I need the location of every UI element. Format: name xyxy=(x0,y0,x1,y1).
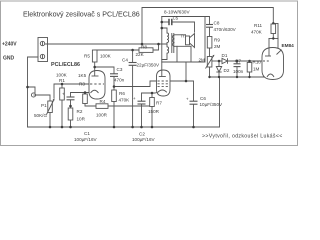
wire R7 bottom xyxy=(151,107,153,128)
pentode ECL86 power section xyxy=(155,70,170,96)
junction eye grid row at D2 xyxy=(218,60,221,63)
svg-text:2M: 2M xyxy=(214,44,221,49)
wire C4 column xyxy=(132,50,134,62)
wire pentode anode riser xyxy=(161,17,163,71)
resistor R9 2M xyxy=(207,37,212,49)
node triode grid (R1 top) xyxy=(61,83,64,86)
wire NFB row to R7 column xyxy=(108,105,152,107)
svg-text:R4: R4 xyxy=(100,99,106,104)
wire C7 column xyxy=(236,61,238,64)
svg-text:22µF/350V: 22µF/350V xyxy=(137,63,161,68)
svg-text:100n: 100n xyxy=(233,69,244,74)
junction eye grid row at R10 xyxy=(248,60,251,63)
wire jack pin to P1 xyxy=(37,95,51,101)
wire pins into EM84 xyxy=(268,39,270,49)
wire R9 to trimmer node xyxy=(209,48,211,57)
wire R1 xyxy=(61,84,63,88)
svg-text:1K5: 1K5 xyxy=(78,73,87,78)
junction anode riser at primary top xyxy=(161,27,164,30)
junction preamp supply node at C4 xyxy=(131,49,134,52)
junction eye ground bus at trimmer xyxy=(208,76,210,78)
wire C6 bottom xyxy=(193,105,195,128)
resistor R3 1K5 xyxy=(83,94,88,104)
potentiometer P1 xyxy=(47,99,55,115)
svg-text:470n: 470n xyxy=(114,78,125,83)
junction ground rail at C6 xyxy=(192,126,195,129)
wire C2 bottom xyxy=(141,104,143,127)
junction ground rail at C2 xyxy=(140,126,143,129)
svg-text:C8: C8 xyxy=(214,21,220,26)
wire anode to C3 xyxy=(95,67,114,74)
wire C1 to R2 xyxy=(70,100,72,108)
capacitor C8 470n/630V xyxy=(206,25,213,28)
wire R3 bottom to NFB row xyxy=(85,103,96,106)
capacitor C4 22uF/350V xyxy=(129,63,137,66)
wire +240V rail xyxy=(47,43,167,45)
outer frame xyxy=(1,1,298,146)
svg-text:GND: GND xyxy=(3,56,15,62)
svg-text:100K: 100K xyxy=(56,73,68,78)
resistor R6 470K xyxy=(112,90,117,102)
wire pin bar xyxy=(269,38,278,40)
wire trimmer bottom xyxy=(209,67,211,77)
svg-text:+240V: +240V xyxy=(2,42,17,48)
svg-text:100K: 100K xyxy=(100,54,112,59)
resistor R11 470K xyxy=(271,24,276,34)
capacitor C1 xyxy=(67,97,75,100)
capacitor C5 xyxy=(169,19,172,25)
resistor R4 100R xyxy=(96,104,108,109)
node pentode cathode xyxy=(151,92,154,95)
wire P1 wiper riser to grid xyxy=(54,84,89,98)
wire box top to C8 xyxy=(162,17,210,25)
wire module pin speaker minus xyxy=(190,46,192,62)
wire jack sleeve xyxy=(28,87,36,93)
svg-text:R6: R6 xyxy=(119,91,125,96)
junction ground rail at R7 xyxy=(151,126,154,129)
resistor R8 22K xyxy=(139,48,153,53)
svg-text:R8: R8 xyxy=(141,45,147,50)
svg-text:R11: R11 xyxy=(254,23,263,28)
junction EM84 supply at R11 xyxy=(272,22,275,25)
resistor R10 1M xyxy=(247,63,252,73)
svg-text:C2: C2 xyxy=(139,132,145,137)
svg-text:100µF/16V: 100µF/16V xyxy=(132,137,156,142)
wire ground rail xyxy=(28,126,220,128)
svg-text:Elektronkový zesilovač s PCL/E: Elektronkový zesilovač s PCL/ECL86 xyxy=(23,11,140,19)
junction GND wire at input jack xyxy=(26,86,29,89)
wire D2 column xyxy=(218,61,220,67)
wire R6 bottom xyxy=(113,102,115,128)
resistor R1 100K xyxy=(60,88,65,100)
speaker xyxy=(186,34,195,48)
capacitor C3 470n xyxy=(110,74,118,77)
svg-text:470n/630V: 470n/630V xyxy=(214,27,237,32)
wire R11 bottom to pin bar xyxy=(272,34,274,39)
svg-text:10µF/350V: 10µF/350V xyxy=(200,102,224,107)
junction C1/R2 xyxy=(69,105,72,108)
wire triode cathode node xyxy=(85,93,92,95)
resistor R7 150R xyxy=(150,98,155,107)
svg-text:470K: 470K xyxy=(119,98,131,103)
wire C5 right to speaker xyxy=(173,22,195,32)
svg-text:C3: C3 xyxy=(117,67,123,72)
junction eye grid row at C7 xyxy=(236,60,239,63)
resistor R2 10R xyxy=(68,108,73,120)
node triode anode xyxy=(93,66,96,69)
svg-text:10R: 10R xyxy=(77,117,86,122)
diode D2 xyxy=(216,67,221,73)
junction anode riser at C5 xyxy=(161,21,164,24)
wire primary bottom jog xyxy=(162,53,167,59)
svg-text:C4: C4 xyxy=(122,58,128,63)
svg-text:2M: 2M xyxy=(199,57,206,62)
svg-text:22K: 22K xyxy=(136,52,145,57)
output transformer Tr1 xyxy=(167,33,175,53)
wire GND drop from connector xyxy=(28,57,39,127)
diode D1 xyxy=(222,58,228,63)
svg-text:R7: R7 xyxy=(156,101,162,106)
junction ground rail at R1 xyxy=(61,126,64,129)
svg-text:1M: 1M xyxy=(253,67,260,72)
wire primary top xyxy=(162,28,167,33)
transformer box xyxy=(162,17,205,63)
wire C8 to R9 xyxy=(209,28,211,37)
svg-text:C7: C7 xyxy=(235,59,241,64)
junction eye ground bus at C7 xyxy=(236,76,238,78)
svg-text:100R: 100R xyxy=(96,113,108,118)
svg-text:+: + xyxy=(186,97,189,102)
junction ground rail at P1 xyxy=(49,126,52,129)
resistor R5 100K xyxy=(92,50,97,62)
svg-text:C6: C6 xyxy=(200,96,206,101)
input jack xyxy=(31,93,36,97)
svg-text:R1: R1 xyxy=(59,78,65,83)
wire top supply to EM84 xyxy=(142,8,273,45)
junction on +240V rail at R8 xyxy=(157,43,160,46)
junction eye ground bus at D2 xyxy=(218,76,220,78)
wire eye ground bus xyxy=(210,76,270,78)
wire P1 bottom xyxy=(49,113,51,128)
wire R10 column xyxy=(249,61,251,63)
svg-text:D1: D1 xyxy=(222,53,228,58)
svg-text:8-10W/630V: 8-10W/630V xyxy=(164,10,190,15)
svg-text:C5: C5 xyxy=(173,16,179,21)
wire pentode cathode node xyxy=(152,93,155,98)
wire triode anode node xyxy=(94,62,96,71)
node triode cathode xyxy=(84,91,87,94)
wire secondary bottom row xyxy=(175,45,192,47)
junction ground rail at R2 xyxy=(69,126,72,129)
wire R2 bottom xyxy=(70,120,72,127)
wire EM84 target branch xyxy=(273,23,278,38)
connector X1 +240V/GND xyxy=(38,38,48,62)
junction ground rail at C4 xyxy=(131,126,134,129)
wire module pin secondary bottom xyxy=(176,46,178,62)
wire pentode grid xyxy=(114,81,157,87)
svg-text:PCL/ECL86: PCL/ECL86 xyxy=(51,62,80,68)
svg-text:D2: D2 xyxy=(224,68,230,73)
wire C5 left xyxy=(162,21,169,23)
svg-text:EM84: EM84 xyxy=(282,43,295,48)
svg-text:R9: R9 xyxy=(214,38,220,43)
wire bus drop to rail xyxy=(219,77,221,127)
svg-text:150R: 150R xyxy=(148,109,160,114)
junction screen row at speaker return xyxy=(185,80,188,83)
wire eye grid row xyxy=(212,60,222,62)
svg-text:+: + xyxy=(133,96,136,101)
trimmer P2 2M xyxy=(206,55,215,69)
svg-text:>>Vytvořil, odzkoušel Lukáš<<: >>Vytvořil, odzkoušel Lukáš<< xyxy=(202,134,283,140)
wire pentode screen row to C6 xyxy=(170,81,194,101)
junction R7 bottom with feedback wire xyxy=(151,105,153,107)
node pentode grid (C3/R6) xyxy=(113,85,116,88)
capacitor C6 10uF/350V xyxy=(190,101,198,104)
junction eye ground bus at R10 xyxy=(248,76,250,78)
junction EM84 pin bar xyxy=(272,37,274,39)
svg-text:R5: R5 xyxy=(84,54,90,59)
svg-text:100µF/16V: 100µF/16V xyxy=(74,137,98,142)
wire preamp supply node y=50 xyxy=(95,49,139,51)
junction on +240V rail to EM84 supply riser xyxy=(141,43,144,46)
svg-text:R10: R10 xyxy=(253,60,262,65)
svg-text:+: + xyxy=(62,92,65,97)
wire speaker minus below box xyxy=(185,62,187,81)
svg-text:470K: 470K xyxy=(251,30,263,35)
svg-text:R2: R2 xyxy=(77,109,83,114)
svg-text:50K/G: 50K/G xyxy=(34,113,47,118)
svg-text:C1: C1 xyxy=(84,131,90,136)
junction ground rail at R6 xyxy=(113,126,116,129)
svg-text:P1: P1 xyxy=(41,103,47,108)
svg-text:R3: R3 xyxy=(79,82,85,87)
wire C3 bottom to grid node xyxy=(113,77,115,90)
wire secondary to speaker top xyxy=(175,34,186,36)
wire cathode to C1 xyxy=(71,93,86,97)
capacitor C7 100n xyxy=(234,64,241,67)
capacitor C2 xyxy=(138,101,146,104)
wire cathode to C2 xyxy=(142,93,153,101)
wire R8 right jog xyxy=(153,44,159,50)
